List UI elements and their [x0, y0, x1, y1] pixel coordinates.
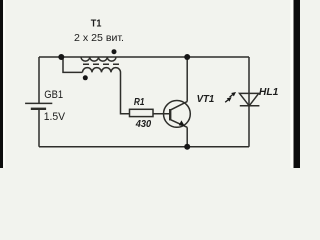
svg-text:430: 430	[135, 119, 152, 130]
svg-text:1.5V: 1.5V	[44, 111, 66, 123]
svg-text:HL1: HL1	[259, 86, 279, 98]
svg-text:2 x 25 вит.: 2 x 25 вит.	[74, 33, 124, 44]
svg-text:T1: T1	[91, 19, 102, 30]
svg-text:GB1: GB1	[44, 89, 63, 101]
svg-text:R1: R1	[134, 97, 145, 108]
svg-text:VT1: VT1	[197, 94, 215, 105]
